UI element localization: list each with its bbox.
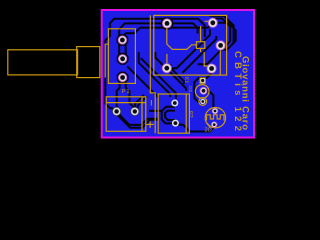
diode D1 left vertical line: [150, 15, 155, 133]
svg-text:D1: D1: [188, 86, 193, 92]
relay K1 pad right: [216, 41, 225, 50]
silkscreen yellow: [8, 15, 227, 133]
wire diagonal bundle line 1: [139, 52, 170, 97]
relay K1 ML pad line: [166, 54, 168, 64]
capacitor C1 round pad: [200, 87, 207, 94]
terminal P1 outline: [106, 97, 146, 132]
wire Q2 bottom pad along board bottom: [178, 125, 215, 132]
transistor Q2 crown marking: [207, 115, 225, 121]
wire C1 mid pad to Q2 top pad: [204, 91, 216, 109]
wire octagon ring outer around K1 right pads: [198, 16, 234, 64]
wire P2 horseshoe inner: [165, 111, 175, 120]
terminal P1 pad 1: [112, 107, 120, 115]
wire relay centre diagonal 2: [183, 36, 217, 73]
terminal P2 outline: [158, 94, 189, 133]
pad below C1: [200, 99, 205, 104]
terminal P2 inner right line: [185, 94, 187, 133]
wire into P2 from left: [149, 110, 162, 112]
svg-text:K1: K1: [183, 77, 189, 83]
transistor Q2 circle: [205, 108, 225, 128]
connector J1 pad 3: [118, 73, 126, 81]
wire octagon ring inner around K1 right pads: [212, 19, 230, 47]
terminal P1 inner right line: [141, 97, 143, 132]
wire P2 horseshoe outer: [162, 107, 176, 124]
wire diagonal bundle line 5: [171, 64, 184, 84]
svg-text:P2: P2: [187, 111, 193, 118]
svg-text:Giovanni Caro: Giovanni Caro: [240, 56, 251, 130]
wire diagonal bundle line 2: [141, 58, 176, 99]
terminal P2 pad 1: [171, 100, 178, 107]
transistor Q2 top pad: [212, 108, 218, 114]
wire pad3-right down to P1 pad2: [126, 81, 135, 108]
svg-text:P1: P1: [122, 89, 131, 95]
pad ring below C1: [199, 98, 207, 106]
relay K1 TR pad line: [205, 20, 210, 22]
relay K1 coil rect: [196, 42, 204, 49]
relay K1 TL pad line and lever symbol: [167, 28, 197, 49]
wire pad2-left up to relay MR: [119, 23, 197, 56]
wire P1 pad1 to P2 lower run: [118, 116, 158, 128]
wire ring around J1 pad1: [118, 35, 128, 45]
labels: [122, 51, 251, 132]
wire ring around J1 pad2: [118, 54, 128, 64]
wire relay centre diagonal 1: [172, 29, 210, 68]
pads: [112, 18, 225, 127]
relay K1 outline: [154, 15, 227, 75]
svg-text:Q2: Q2: [204, 126, 211, 132]
wire P1 pad1 to P2 upper run: [117, 112, 158, 125]
wire diagonal bundle line 4: [127, 66, 157, 98]
capacitor C1 square: [200, 78, 205, 83]
capacitor C1 circle: [195, 85, 209, 99]
PCB board copper plane: [102, 10, 254, 138]
wire ring around K1 TL pad: [162, 18, 172, 28]
wire pad2-right to pad1: [123, 41, 126, 54]
board edge magenta outline: [102, 10, 254, 138]
relay K1 pad MR: [207, 64, 216, 73]
wire pad1 to relay TR: [123, 23, 213, 40]
relay K1 right pad line: [219, 50, 221, 75]
relay K1 pad ML: [162, 64, 171, 73]
connector J1 flange line: [105, 44, 108, 77]
connector J1 pad 2: [118, 55, 126, 63]
wire pad3-left down to P1 pad1: [117, 81, 120, 109]
connector J1 body on board: [108, 29, 135, 84]
capacitor C1 square pad: [201, 78, 205, 82]
relay K1 pad TR: [208, 18, 217, 27]
wire top staircase outer: [105, 19, 205, 94]
connector J1 pad 1: [118, 36, 126, 44]
connector J1 outer body (off board): [8, 50, 78, 75]
transistor Q2 bottom pad: [211, 122, 217, 128]
terminal P1 inner top line: [106, 102, 146, 104]
connector J1 inner body (off board): [77, 47, 100, 78]
relay K1 pad TL: [162, 19, 171, 28]
terminal P2 pad 2: [172, 120, 179, 127]
minus sign (rotated): [150, 100, 152, 106]
relay K1 coil line vertical: [201, 26, 209, 66]
wire left vertical to P1 pad1: [105, 93, 116, 112]
plus sign: [146, 121, 153, 128]
wire diagonal bundle line 3: [155, 52, 186, 91]
wire ring around J1 pad3: [118, 73, 128, 83]
wire relay MR down around C1: [194, 69, 211, 102]
wire right side long run to Q2: [213, 23, 236, 46]
terminal P1 pad 2: [131, 107, 139, 115]
wire P1 diagonal: [135, 95, 144, 108]
